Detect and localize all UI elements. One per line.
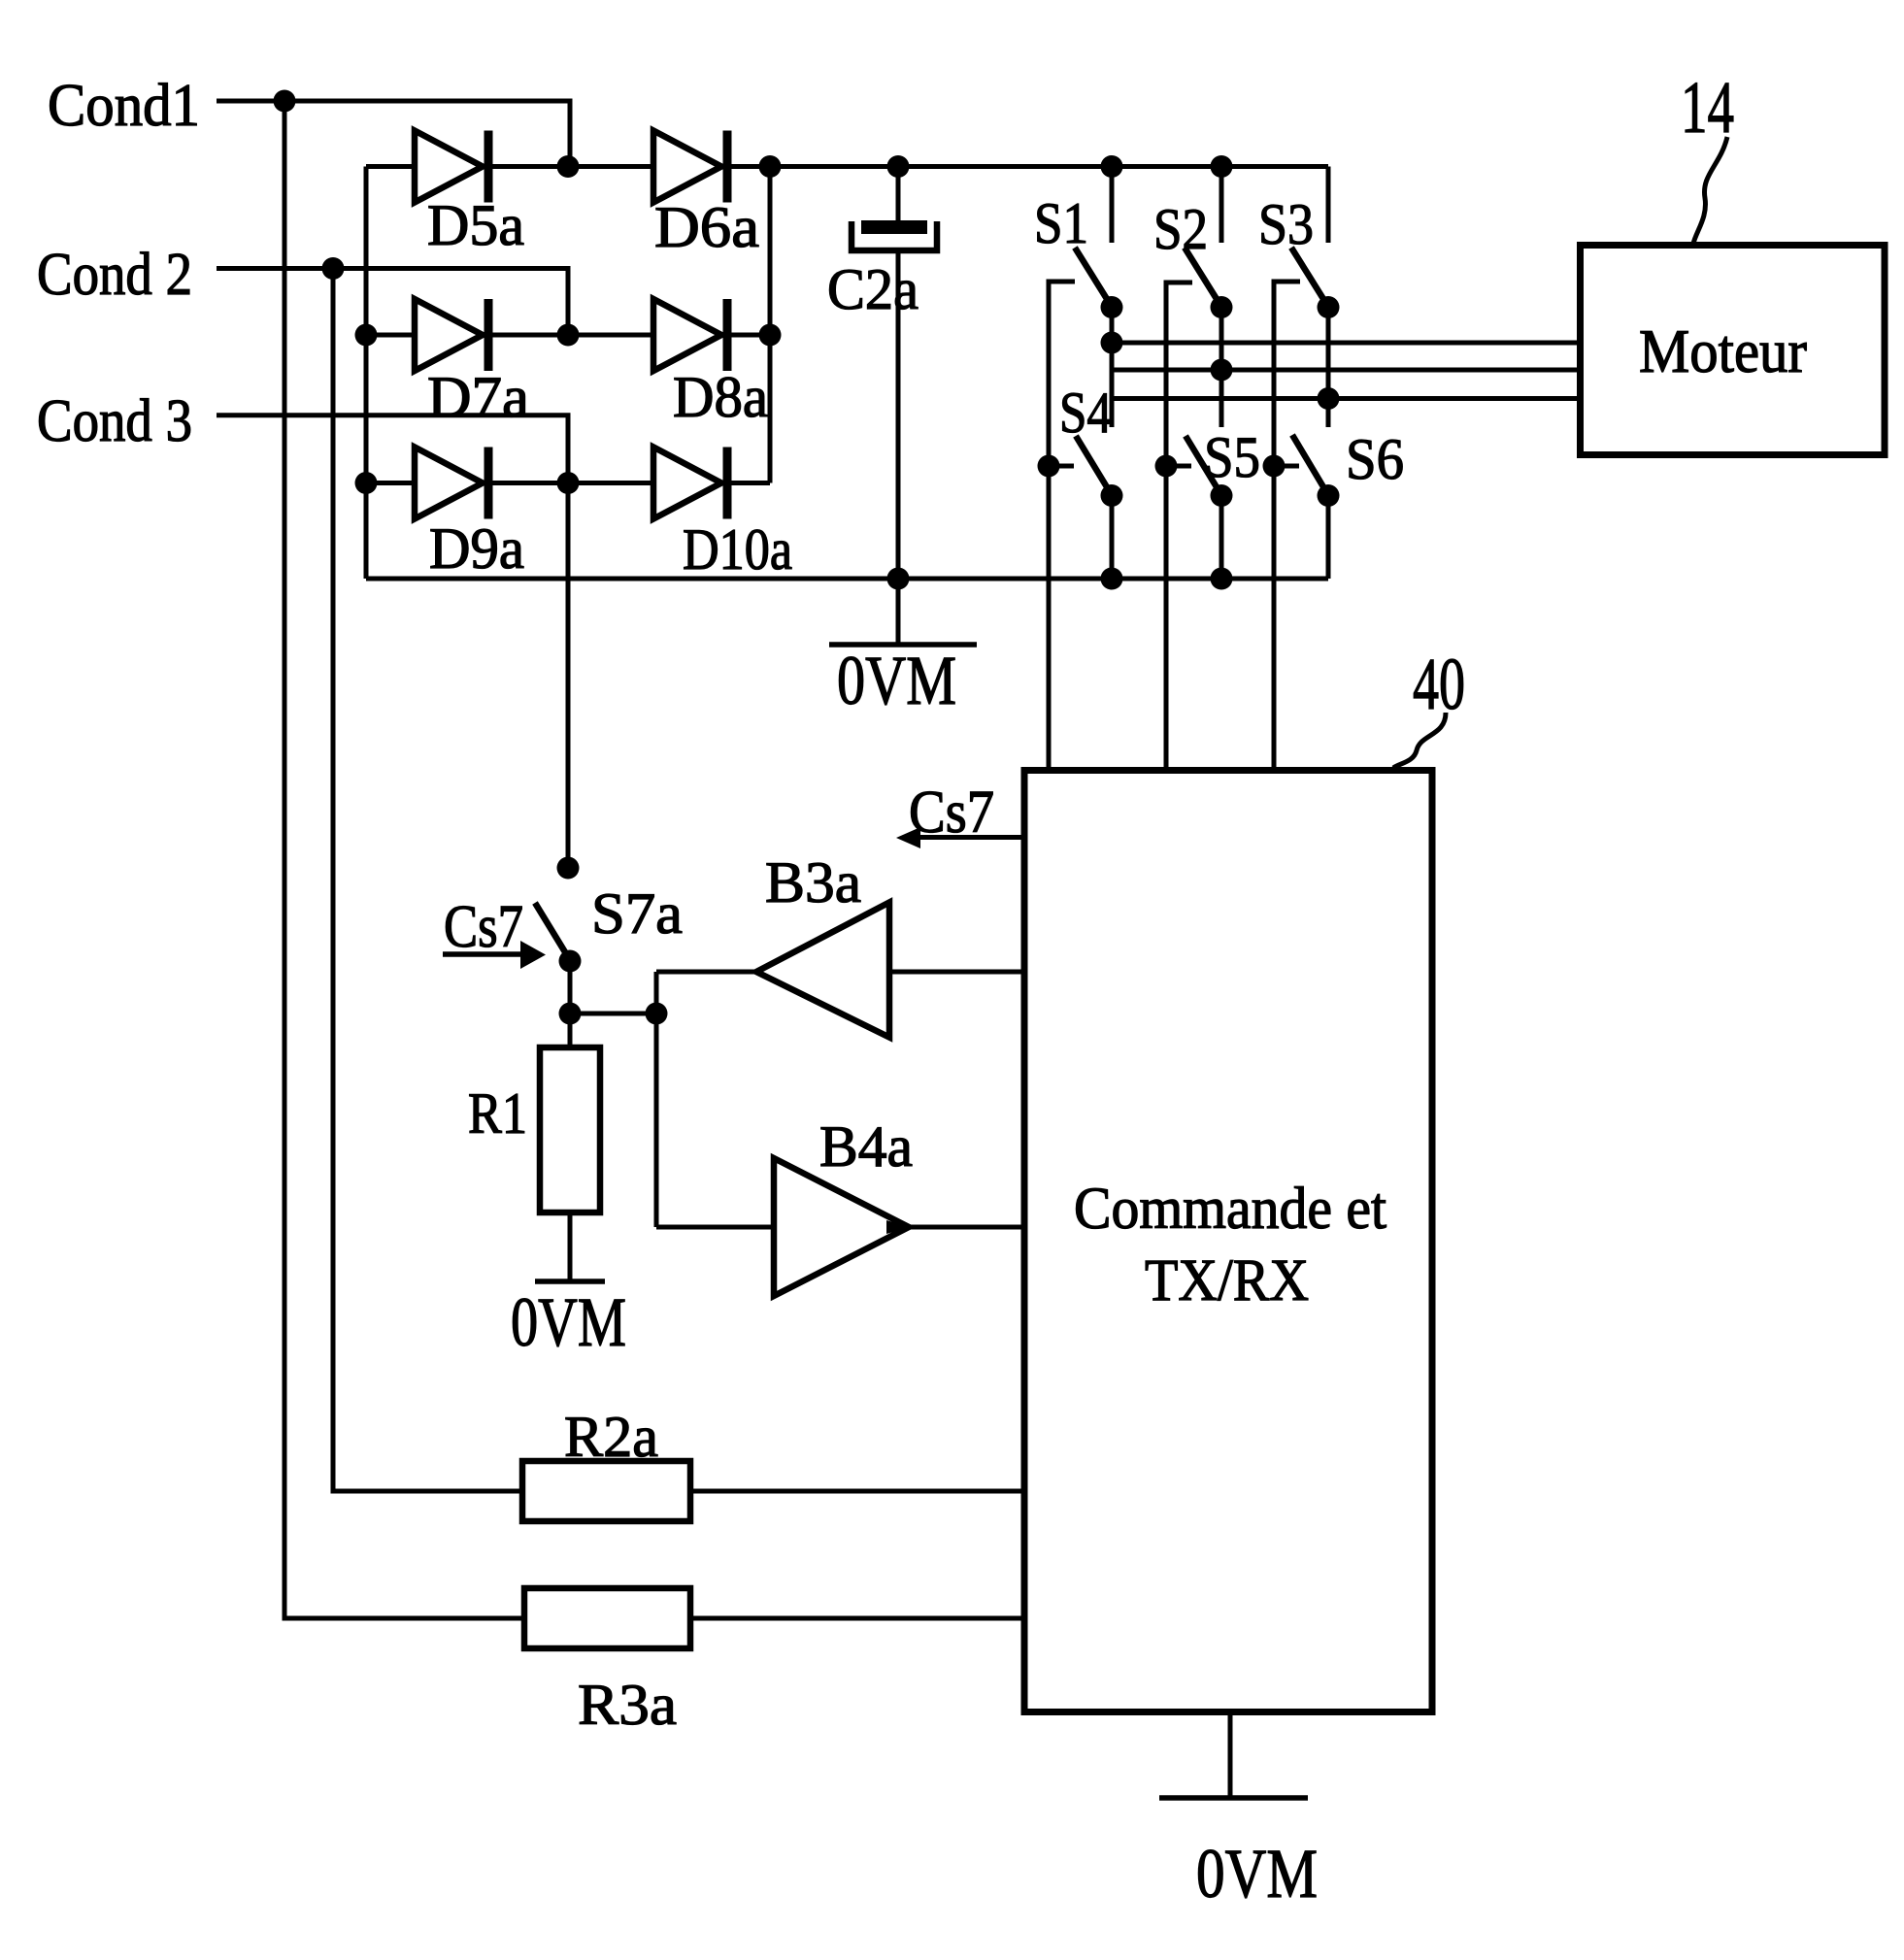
svg-text:R3a: R3a: [578, 1673, 677, 1737]
node Cond1 junction dot: [274, 90, 296, 113]
switch S7a: [557, 857, 580, 880]
wire Cond3 lead: [217, 415, 568, 483]
buffer B3a: [656, 970, 756, 975]
wire control line Cs1 bracket: [1049, 282, 1075, 768]
wire control line Cs3 bracket: [1274, 282, 1300, 768]
svg-text:40: 40: [1413, 644, 1465, 725]
svg-text:Cond 3: Cond 3: [37, 388, 192, 454]
svg-text:D7a: D7a: [427, 365, 529, 429]
wire long vertical to S7a: [566, 483, 571, 869]
Commande box 40: [1024, 771, 1432, 1712]
svg-text:D8a: D8a: [673, 365, 768, 429]
wire right rail: [768, 167, 773, 483]
wire bottom rail 0VM: [366, 577, 1328, 581]
resistor R1: [540, 1047, 600, 1213]
svg-text:D9a: D9a: [429, 516, 524, 581]
svg-text:C2a: C2a: [827, 257, 919, 321]
svg-text:S6: S6: [1346, 427, 1404, 491]
node left rail row3: [355, 472, 378, 494]
svg-text:S5: S5: [1204, 425, 1260, 489]
svg-text:R1: R1: [468, 1081, 527, 1146]
capacitor C2a: [896, 167, 901, 221]
svg-text:S3: S3: [1258, 192, 1314, 256]
svg-text:Cond1: Cond1: [48, 73, 200, 139]
svg-text:TX/RX: TX/RX: [1145, 1248, 1309, 1313]
svg-text:D10a: D10a: [683, 517, 792, 581]
svg-text:B4a: B4a: [819, 1114, 913, 1179]
diode D6a: [653, 131, 721, 203]
switch S5: [1186, 436, 1221, 495]
wire motor line 1: [1112, 341, 1583, 346]
svg-text:0VM: 0VM: [511, 1283, 626, 1361]
svg-text:S2: S2: [1153, 197, 1208, 261]
svg-text:Commande et: Commande et: [1074, 1177, 1386, 1242]
svg-text:Moteur: Moteur: [1639, 316, 1807, 385]
switch S1: [1110, 167, 1115, 244]
ground 0VM below box: [1228, 1712, 1233, 1797]
node Cond2 junction dot: [322, 257, 345, 280]
node right rail row2: [759, 324, 782, 347]
svg-text:S7a: S7a: [591, 881, 683, 946]
node row3 mid junction: [557, 472, 580, 494]
wire vertical from Cond2 to R2a: [333, 269, 522, 1492]
wire S7a node to buffers: [570, 1012, 656, 1016]
svg-text:Cond 2: Cond 2: [37, 242, 192, 308]
wire motor line 3: [1112, 396, 1583, 401]
svg-text:S1: S1: [1034, 191, 1088, 255]
svg-text:0VM: 0VM: [1196, 1835, 1318, 1912]
wire control line Cs2 bracket: [1166, 282, 1192, 768]
node S1 rail dot: [1101, 155, 1123, 178]
wire Cond2 lead: [217, 269, 568, 336]
switch S6: [1292, 435, 1328, 495]
wire motor line 2: [1112, 368, 1583, 373]
wire diode row 2: [366, 333, 770, 338]
svg-text:S4: S4: [1059, 381, 1112, 445]
node C2a bottom dot: [887, 568, 910, 590]
switch S4: [1076, 436, 1112, 495]
wire left rail: [364, 167, 369, 580]
resistor R3a: [524, 1588, 690, 1648]
diode D9a: [415, 448, 483, 519]
wire vertical from Cond1 to R3a: [284, 101, 524, 1618]
svg-text:R2a: R2a: [564, 1405, 658, 1469]
svg-text:14: 14: [1681, 67, 1734, 149]
Moteur box 14: [1581, 246, 1886, 455]
resistor R2a: [522, 1461, 690, 1521]
node row2 mid junction: [557, 324, 580, 347]
diode D10a: [653, 448, 721, 519]
wire diode row 1: [366, 164, 1328, 169]
svg-text:0VM: 0VM: [837, 642, 956, 719]
node C2a top dot: [887, 155, 910, 178]
switch S2: [1219, 167, 1224, 244]
node left rail row2: [355, 324, 378, 347]
svg-text:D6a: D6a: [654, 195, 759, 259]
buffer B4a: [656, 1225, 774, 1230]
node right rail row1: [759, 155, 782, 178]
ground 0VM under C2a: [896, 579, 901, 643]
svg-text:B3a: B3a: [765, 850, 861, 914]
svg-text:D5a: D5a: [427, 193, 524, 257]
svg-text:Cs7: Cs7: [444, 894, 523, 960]
ground 0VM under R1: [535, 1279, 605, 1284]
wire Cond1 lead: [217, 101, 570, 167]
diode D7a: [415, 299, 483, 371]
node row1 mid junction: [557, 155, 580, 178]
diode D5a: [415, 131, 483, 203]
wire diode row 3: [366, 481, 770, 485]
node S2 rail dot: [1211, 155, 1233, 178]
diode D8a: [653, 299, 721, 371]
switch S3: [1326, 167, 1331, 244]
